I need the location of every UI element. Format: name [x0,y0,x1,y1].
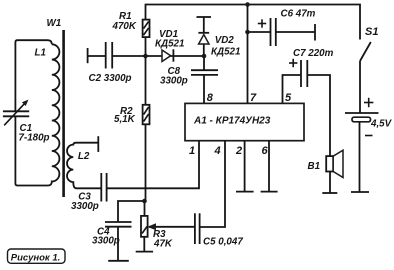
svg-text:1: 1 [189,145,195,157]
svg-text:5,1K: 5,1K [114,114,136,125]
svg-text:4: 4 [214,145,221,157]
svg-text:47K: 47K [153,239,173,250]
svg-text:Рисунок 1.: Рисунок 1. [11,252,61,263]
svg-text:КД521: КД521 [211,47,240,58]
svg-text:4,5V: 4,5V [370,119,393,130]
svg-text:5: 5 [285,92,292,104]
svg-text:8: 8 [207,92,214,104]
svg-text:7-180p: 7-180p [19,133,50,144]
svg-text:3300p: 3300p [92,236,120,247]
svg-text:470K: 470K [112,21,137,32]
svg-text:C7 220m: C7 220m [293,48,334,59]
svg-text:B1: B1 [308,161,321,172]
svg-text:C2 3300p: C2 3300p [89,73,132,84]
svg-text:VD2: VD2 [215,35,235,46]
svg-text:3300p: 3300p [160,76,188,87]
svg-text:7: 7 [250,92,257,104]
svg-text:2: 2 [235,145,242,157]
svg-text:S1: S1 [365,26,378,38]
svg-text:C6 47m: C6 47m [281,9,316,20]
svg-text:C5 0,047: C5 0,047 [203,237,243,248]
svg-text:КД521: КД521 [155,39,184,50]
svg-text:L1: L1 [35,48,46,59]
svg-text:3300p: 3300p [71,201,99,212]
svg-text:А1 - КР174УН23: А1 - КР174УН23 [193,116,271,127]
svg-text:6: 6 [262,145,269,157]
svg-text:L2: L2 [78,151,90,162]
svg-text:W1: W1 [47,18,62,29]
